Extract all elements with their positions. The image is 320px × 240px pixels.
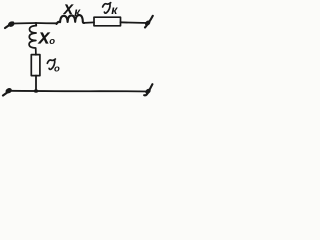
inductor Xk <box>57 15 85 24</box>
svg-text:o: o <box>54 64 60 75</box>
wire <box>84 21 94 24</box>
terminal bottom-right <box>144 84 152 95</box>
junction bottom <box>34 89 38 93</box>
terminal top-left <box>5 23 13 29</box>
svg-text:к: к <box>74 7 81 19</box>
resistor Rk <box>94 17 121 26</box>
bottom wire <box>10 90 149 93</box>
label rk (cursive r) <box>103 3 111 13</box>
terminal bottom-left <box>3 91 10 96</box>
label ro (cursive r) <box>47 59 55 69</box>
svg-text:o: o <box>49 36 55 47</box>
resistor Ro (vertical) <box>31 55 40 76</box>
svg-text:X: X <box>63 2 74 17</box>
wire vertical to bottom <box>35 76 37 91</box>
wire top-left <box>13 22 36 25</box>
inductor Xo (vertical coil) <box>29 26 36 55</box>
node junction top <box>35 23 37 26</box>
svg-text:к: к <box>111 3 118 17</box>
terminal top-right <box>145 16 153 28</box>
wire top-right <box>121 21 149 24</box>
wire top-mid <box>36 22 57 24</box>
